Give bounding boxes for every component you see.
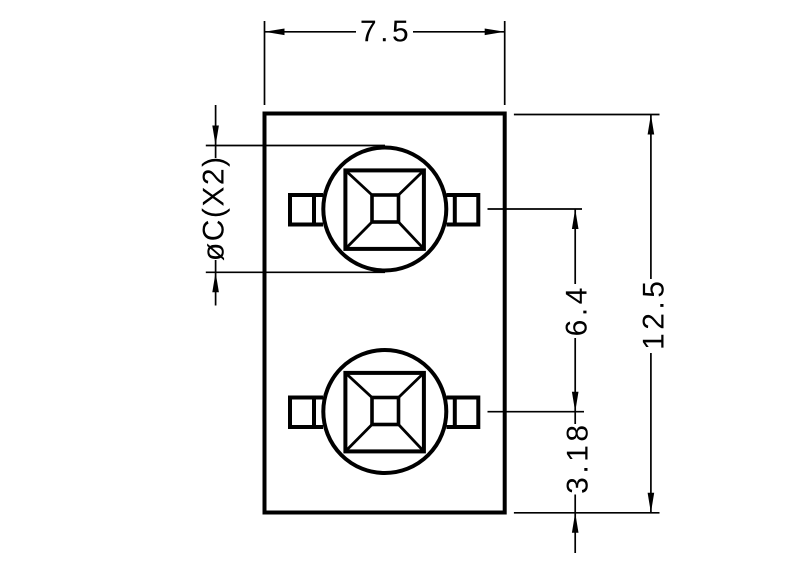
dimension 7.5 arrowheads: [265, 29, 505, 36]
diameter C dimension line: [215, 105, 217, 306]
dimension 12.5 text: [643, 282, 664, 347]
LED 2 left tab: [290, 398, 323, 428]
LED 2 circle: [323, 350, 446, 473]
LED 1 reflector diagonals: [345, 170, 424, 249]
LED 2 right tab: [447, 398, 479, 428]
dimension 7.5 extension lines: [265, 21, 505, 105]
LED 1 outer square: [345, 170, 424, 249]
dimension 6.4 text: [566, 289, 587, 335]
dimension 3.18 arrowhead: [572, 513, 579, 533]
dimension 12.5 line: [650, 115, 652, 513]
dimension 7.5 text: [361, 21, 407, 42]
dimension 12.5 arrowheads: [648, 115, 655, 513]
dimension 3.18 text: [567, 426, 588, 492]
package outline: [265, 114, 505, 513]
LED 1 left tab: [290, 195, 323, 225]
diameter C label: [202, 159, 230, 261]
LED 2 inner square: [372, 398, 399, 425]
diameter C extension lines: [206, 146, 385, 273]
dimension 12.5 extension lines: [514, 115, 660, 513]
LED 1 right tab: [447, 195, 479, 225]
dimension 3.18 line: [574, 412, 576, 553]
dimension 7.5 line: [265, 31, 505, 33]
dimension 6.4 line: [574, 209, 576, 412]
dimension 6.4 extension lines: [488, 209, 585, 412]
LED 1 circle: [323, 148, 446, 271]
dimension 6.4 arrowheads: [572, 209, 579, 412]
diameter C arrowheads: [212, 126, 219, 293]
LED 2 reflector diagonals: [345, 373, 424, 452]
LED 1 inner square: [372, 195, 399, 222]
LED 2 outer square: [345, 373, 424, 452]
